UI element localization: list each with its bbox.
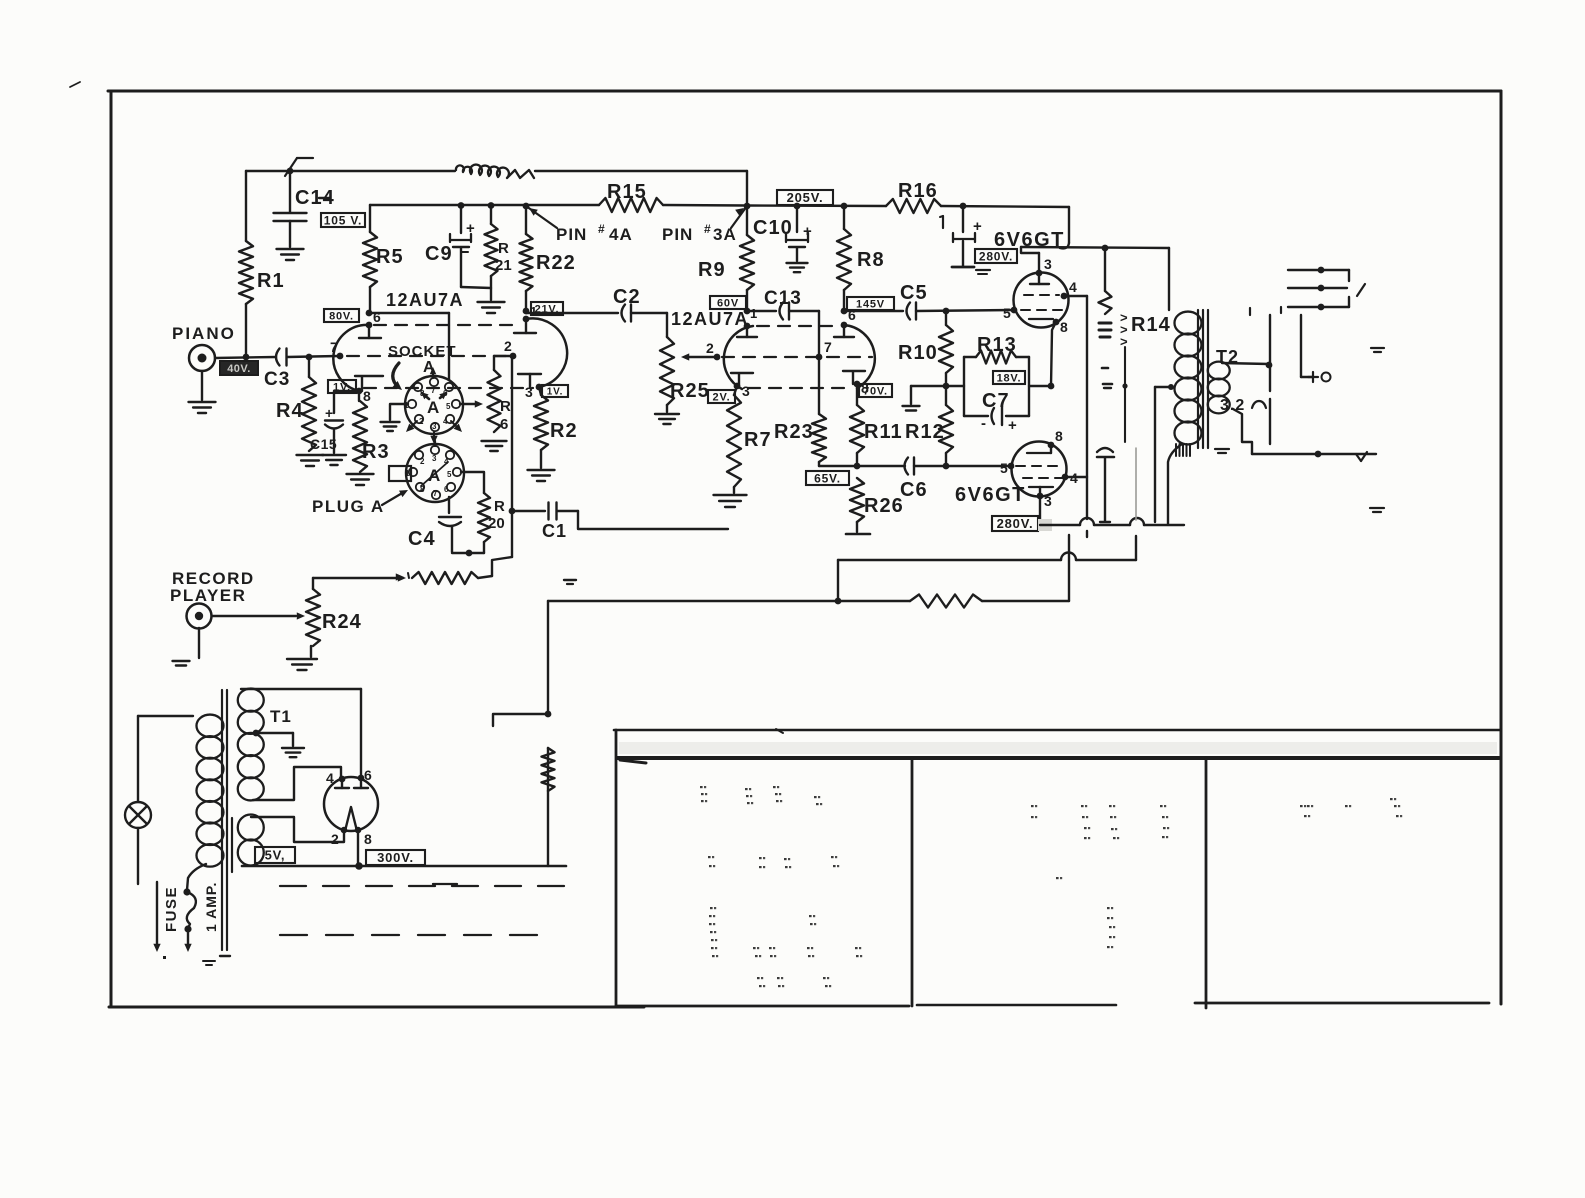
resistor R13 + box (964, 334, 1029, 416)
resistor B+ filter (vertical) (542, 748, 555, 791)
svg-text:PIN: PIN (556, 225, 587, 244)
svg-text:65V.: 65V. (814, 471, 841, 485)
equals under T2 (1215, 449, 1229, 453)
V2 pin 3 (731, 373, 753, 399)
jack RECORD PLAYER (170, 569, 255, 666)
speaker line 3 (1288, 297, 1349, 310)
label 70V box (859, 384, 892, 397)
label 40V box (scribbled) (220, 361, 258, 375)
wire R24 top (313, 574, 406, 581)
svg-text:C5: C5 (900, 282, 928, 304)
V4 grid dashes (1016, 466, 1062, 478)
resistor R8 (837, 206, 885, 311)
svg-text:2: 2 (419, 417, 424, 426)
resistor R26 (846, 478, 904, 534)
node B+ top right (960, 203, 967, 210)
svg-text:205V.: 205V. (787, 190, 824, 205)
svg-text:-: - (981, 415, 986, 432)
wire 65V line (819, 465, 1011, 467)
equals mark under R14 (1103, 384, 1112, 388)
socket A letter (427, 398, 439, 417)
V4 plate bar (1027, 445, 1051, 453)
tube V3 envelope (1014, 273, 1069, 328)
node 40V (243, 354, 250, 361)
svg-text:R15: R15 (607, 181, 647, 203)
label 145V box (847, 297, 894, 310)
resistor R6 (482, 356, 512, 451)
svg-text:C9: C9 (425, 243, 453, 265)
V4 pin 3 (1037, 493, 1052, 509)
parts box 1 frame (616, 730, 909, 1007)
svg-text:300V.: 300V. (377, 850, 414, 865)
V1 pin 1 (514, 304, 537, 333)
wire pin8 to C15/R3 (334, 391, 359, 413)
resistor R16 (886, 180, 941, 213)
svg-text:C6: C6 (900, 479, 928, 501)
svg-text:21: 21 (495, 257, 512, 274)
label 280V box top (975, 249, 1017, 263)
label PLUG A (312, 490, 408, 516)
resistor R1 (239, 241, 285, 304)
svg-text:C4: C4 (408, 528, 436, 550)
svg-text:SOCKET: SOCKET (388, 343, 457, 360)
wire HV top to pin 6 (360, 689, 362, 778)
svg-text:6: 6 (373, 309, 381, 325)
callout PIN #4A (526, 206, 633, 244)
wire secondary bottom (1233, 409, 1252, 454)
T2 primary bottom lead (1168, 444, 1182, 524)
wire R1 column (245, 171, 247, 357)
tube V2 left envelope (724, 326, 753, 389)
rectifier plate pin 4 (335, 776, 349, 788)
svg-text:2V.: 2V. (713, 391, 731, 403)
V3 pin 5 (1003, 305, 1017, 321)
V3 pin 3 plate (1030, 253, 1052, 284)
svg-text:R8: R8 (857, 249, 885, 271)
svg-text:R10: R10 (898, 342, 938, 364)
transformer T2 winding end fringe (1176, 444, 1190, 456)
AC line arrow (153, 882, 166, 959)
gray smudge 280V (1038, 519, 1052, 531)
svg-text:6: 6 (364, 767, 372, 783)
svg-text:105 V.: 105 V. (324, 213, 362, 227)
stray mark top-left (70, 82, 80, 87)
wire 280V bus corner (1021, 207, 1169, 248)
svg-text:C10: C10 (753, 217, 793, 239)
tube V1 plate dashes (374, 324, 521, 326)
equals right (1371, 348, 1384, 352)
V1 pin 3 (518, 374, 542, 400)
transformer T1 primary winding (196, 715, 223, 867)
V4 pin 4 (1062, 470, 1078, 486)
svg-text:1 AMP.: 1 AMP. (203, 882, 219, 932)
svg-text:40V.: 40V. (227, 363, 251, 375)
socket A north stub (430, 367, 437, 378)
transformer T2 secondary (1208, 362, 1230, 414)
svg-text:R4: R4 (276, 400, 304, 422)
label SOCKET A (388, 343, 457, 390)
V1 pin 8 (355, 376, 383, 404)
capacitor C7 (964, 390, 1029, 434)
speaker line 1 (1288, 267, 1349, 281)
wire PIN4A corner (746, 171, 748, 206)
speaker vertical 2 (1301, 315, 1313, 377)
tube V2 grid dashes (722, 356, 872, 358)
wire C13 to pin7 (818, 311, 820, 357)
rectifier pin 8 wire (B+) (355, 827, 362, 865)
wire record to R24 wiper (212, 612, 305, 619)
parts table top rule (614, 729, 1501, 733)
resistor R25 (655, 313, 710, 424)
svg-text:280V.: 280V. (997, 516, 1034, 531)
svg-text:145V: 145V (856, 298, 885, 310)
V2 pin 8 (843, 371, 869, 396)
svg-text:R13: R13 (977, 334, 1017, 356)
parts box 3 bottom (1195, 1002, 1489, 1005)
svg-text:3: 3 (525, 384, 533, 400)
tick marks (1250, 307, 1281, 315)
node R4 top (306, 354, 313, 361)
wire hook to mixer resistor (492, 557, 512, 576)
svg-text:3: 3 (1044, 256, 1052, 272)
capacitor C2 (526, 286, 667, 322)
svg-text:FUSE: FUSE (163, 886, 180, 932)
label 60V box (710, 296, 746, 309)
label 18V box (993, 371, 1025, 384)
resistor R21 (478, 202, 512, 313)
svg-text:1: 1 (405, 469, 410, 478)
callout PIN #3A (662, 206, 747, 244)
wire plate bus to T2 (1168, 248, 1170, 310)
svg-text:R11: R11 (864, 421, 903, 443)
svg-text:2: 2 (420, 457, 425, 466)
wire 280V riser (1068, 535, 1070, 601)
transformer T2 core (1198, 310, 1208, 448)
svg-text:60V: 60V (717, 297, 739, 309)
svg-text:7: 7 (431, 386, 436, 395)
socket A west wire (381, 404, 409, 431)
node 300V junction (355, 862, 363, 870)
V2 pin 7 (816, 339, 832, 360)
capacitor C6 (900, 458, 928, 502)
socket A body (405, 376, 463, 434)
node 145V right (943, 308, 950, 315)
resistor R3 (347, 401, 390, 485)
svg-text:80V.: 80V. (329, 310, 354, 322)
wire C3 to grid (287, 356, 338, 357)
svg-text:3: 3 (742, 383, 750, 399)
label T1 (270, 707, 292, 726)
svg-text:#: # (704, 222, 711, 236)
capacitor C4 (408, 497, 461, 552)
equals right lower (1370, 508, 1384, 512)
wire HV bottom to rectifier pin 4 (253, 767, 341, 800)
mixer resistor from R24 (396, 572, 492, 584)
resistor R10 (898, 311, 953, 386)
svg-text:5: 5 (1003, 305, 1011, 321)
svg-text:PIN: PIN (662, 225, 693, 244)
V1 pin 2 (504, 338, 516, 359)
svg-text:R9: R9 (698, 259, 726, 281)
socket A east wire to R6 (460, 400, 483, 407)
svg-text:12AU7A: 12AU7A (671, 309, 749, 329)
label 1 AMP. (203, 882, 219, 932)
svg-text:6: 6 (500, 416, 508, 433)
svg-text:R23: R23 (774, 421, 814, 443)
svg-text:R26: R26 (864, 495, 904, 517)
node R11 foot (854, 463, 861, 470)
R25 wiper arrow (681, 353, 717, 360)
svg-text:PLAYER: PLAYER (170, 586, 246, 605)
svg-text:1: 1 (530, 304, 537, 319)
parts box 2 bottom (917, 1004, 1116, 1007)
label 105V box (321, 213, 365, 227)
parts box 2 faded text specks (1031, 805, 1169, 948)
wire R13 block to cathode (1029, 385, 1051, 387)
label 6V6GT top (994, 229, 1065, 251)
svg-text:20: 20 (488, 515, 505, 532)
svg-text:12AU7A: 12AU7A (386, 290, 464, 310)
socket A pin numbers (404, 386, 451, 431)
svg-text:5V,: 5V, (265, 848, 286, 863)
wire C1 run (578, 511, 728, 529)
rectifier pin 2 wire to 5V winding (251, 817, 347, 842)
svg-text:+: + (803, 223, 812, 240)
svg-text:C2: C2 (613, 286, 641, 308)
svg-text:R14: R14 (1131, 314, 1171, 336)
svg-text:R: R (498, 240, 509, 257)
svg-text:PLUG A: PLUG A (312, 497, 385, 516)
capacitor C9 (425, 202, 475, 287)
pilot lamp (125, 716, 151, 884)
wire lamp to T1 primary (138, 715, 193, 717)
V3 pin 8 (1053, 319, 1068, 335)
jack PIANO (172, 324, 236, 413)
resistor B+ dropping (horizontal) (910, 595, 982, 608)
capacitor C15 (310, 405, 346, 465)
svg-text:C3: C3 (264, 369, 290, 390)
wire C9 to R21 foot (461, 287, 491, 288)
rectifier tube envelope (324, 777, 378, 831)
svg-text:R5: R5 (376, 246, 404, 268)
transformer T1 core (203, 690, 232, 965)
svg-text:5: 5 (446, 402, 451, 411)
capacitor C13 (747, 288, 819, 320)
tube V2 right envelope (844, 325, 875, 388)
V4 cathode bar (1029, 487, 1053, 496)
squiggle on top bus (456, 165, 534, 178)
label 65V box (806, 471, 849, 485)
speaker return line (1252, 451, 1376, 458)
speaker line 2 (1288, 285, 1347, 292)
svg-text:PIANO: PIANO (172, 324, 236, 343)
T2 primary center tap riser (1155, 384, 1174, 522)
svg-text:4A: 4A (609, 225, 633, 244)
wire primary to fuse (187, 864, 206, 890)
tick mark 1 (940, 216, 943, 228)
plug A pins (409, 446, 461, 499)
capacitor C14 (274, 171, 335, 260)
node R12 foot (943, 463, 950, 470)
V2 pin 2 (706, 340, 720, 360)
label 300V box (366, 850, 425, 865)
node 205V (794, 203, 801, 210)
border frame (108, 91, 1501, 1007)
resistor R5 (363, 232, 404, 313)
svg-text:C1: C1 (542, 521, 567, 541)
wire pin6 bus to socket (369, 313, 449, 380)
svg-text:5: 5 (447, 470, 452, 479)
svg-text:7: 7 (433, 489, 438, 498)
label 80V box (324, 309, 359, 322)
svg-text:1: 1 (750, 306, 757, 321)
resistor R2 (528, 387, 578, 481)
wire V1 pin2 to R6 (494, 355, 513, 357)
capacitor C10 (753, 206, 812, 272)
svg-text:6: 6 (444, 485, 449, 494)
socket A keying arrows (406, 392, 462, 444)
resistor R15 (599, 181, 663, 212)
svg-text:C15: C15 (310, 436, 337, 452)
wire 205V bus (747, 204, 886, 207)
wire C4/R20 foot (452, 550, 484, 557)
svg-text:R1: R1 (257, 270, 285, 292)
V3 grid dashes (1021, 295, 1062, 310)
junction C14 (285, 158, 313, 176)
svg-text:R2: R2 (550, 420, 578, 442)
node 145V (841, 308, 848, 315)
label 5V box (255, 847, 295, 863)
node R8 top (841, 203, 848, 210)
svg-text:A: A (427, 398, 439, 417)
feedback wire horizontal (838, 553, 1136, 560)
node 21V (523, 308, 530, 315)
wire HV center tap (253, 730, 304, 758)
resistor R4 (276, 357, 324, 466)
rectifier plate pin 6 (354, 775, 368, 788)
svg-text:T1: T1 (270, 707, 292, 726)
svg-text:>: > (1120, 334, 1128, 349)
rectifier filament (345, 807, 357, 831)
parts table heavy rule (617, 758, 1499, 763)
svg-text:18V.: 18V. (997, 372, 1022, 384)
ground stub mid (903, 386, 947, 411)
label FUSE (163, 886, 180, 932)
svg-text:+: + (973, 218, 982, 235)
svg-text:R7: R7 (744, 429, 772, 451)
label T2 (1216, 347, 1239, 367)
R14 lower lead (1122, 347, 1127, 442)
label 1V box right (542, 385, 568, 398)
svg-text:R24: R24 (322, 611, 362, 633)
transformer T1 HV secondary winding (238, 689, 264, 801)
resistor R22 (520, 203, 576, 311)
V3 pin 4 (1061, 279, 1077, 299)
wire V3 pin4 to bus (1064, 295, 1087, 297)
svg-text:R12: R12 (905, 421, 945, 443)
node 80V / pin6 feed (366, 310, 373, 317)
svg-text:R25: R25 (670, 380, 710, 402)
svg-text:3A: 3A (713, 225, 737, 244)
parts table header band (619, 742, 1497, 754)
wire B+ riser (545, 601, 552, 866)
node 60V (744, 308, 751, 315)
svg-text:3.2: 3.2 (1220, 397, 1245, 414)
V1 pin 7 (330, 339, 343, 359)
wire feedback drop (837, 560, 839, 601)
wire R16 to corner (941, 206, 1069, 207)
output jack circle (1308, 372, 1331, 382)
node C1 (509, 508, 516, 515)
transformer T1 5V winding (238, 815, 264, 866)
stub at B+ node (493, 714, 548, 726)
svg-text:R16: R16 (898, 180, 938, 202)
label 205V box (777, 190, 833, 205)
svg-text:2: 2 (706, 340, 714, 356)
tube V4 envelope (1012, 442, 1067, 497)
tube V1 right envelope (526, 318, 567, 387)
svg-text:R22: R22 (536, 252, 576, 274)
parts box 3 faded text specks (1300, 798, 1402, 817)
wire B+ horizontal 280V feed (548, 598, 1069, 605)
socket A pins (408, 378, 460, 431)
plug A east wire to R20 (461, 472, 484, 493)
resistor R11 (850, 388, 903, 466)
wire HV secondary top lead (241, 688, 361, 690)
svg-text:280V.: 280V. (979, 249, 1013, 263)
fuse (183, 888, 195, 952)
svg-text:1: 1 (404, 401, 409, 410)
label 1V box left (328, 380, 356, 393)
tube V2 plate dashes (757, 325, 840, 327)
svg-text:3: 3 (432, 454, 437, 463)
resistor R14 (1099, 248, 1112, 368)
svg-text:R: R (500, 398, 511, 415)
svg-text:R3: R3 (362, 441, 390, 463)
slash mark (1357, 284, 1365, 296)
V4 pin 5 (1000, 460, 1014, 476)
label 12AU7A second (671, 309, 749, 329)
svg-text:5: 5 (1000, 460, 1008, 476)
faint vertical feedback (1135, 448, 1137, 520)
capacitor 280V filter (952, 206, 990, 274)
resistor R9 (698, 206, 754, 311)
potentiometer R24 (287, 578, 362, 670)
check mark v (1356, 452, 1367, 461)
V4 pin 8 (1048, 428, 1063, 448)
V3 cathode bar (1029, 318, 1053, 320)
HT bus 280V (1040, 518, 1184, 525)
plug A letter (421, 462, 448, 486)
svg-text:#: # (598, 222, 605, 236)
svg-text:1V.: 1V. (547, 387, 564, 398)
V1 pin 6 (359, 309, 381, 338)
wire 105V bus (370, 205, 747, 232)
svg-text:3: 3 (1044, 493, 1052, 509)
tube V1 cathode dashes (364, 387, 533, 389)
equals mark near C1 run (564, 580, 576, 584)
label 12AU7A first (386, 290, 464, 310)
svg-text:4: 4 (326, 770, 334, 786)
svg-text:+: + (1008, 417, 1017, 434)
wire pin7 to R23 (818, 357, 820, 414)
wire V1 grid2 column (511, 356, 513, 557)
label 2V box (708, 390, 735, 403)
feedback wire corner (1135, 536, 1137, 560)
node cathode junction (1048, 383, 1055, 390)
svg-text:70V.: 70V. (863, 385, 888, 397)
label 6V6GT bottom (955, 484, 1026, 506)
